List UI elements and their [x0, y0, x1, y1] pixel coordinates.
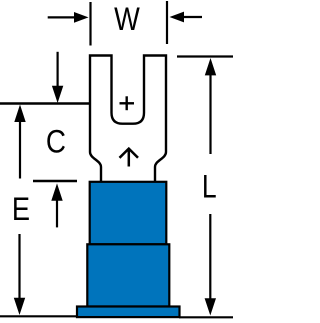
- svg-text:C: C: [46, 125, 66, 160]
- svg-text:E: E: [12, 192, 30, 228]
- svg-text:L: L: [202, 169, 217, 205]
- svg-text:W: W: [114, 2, 140, 38]
